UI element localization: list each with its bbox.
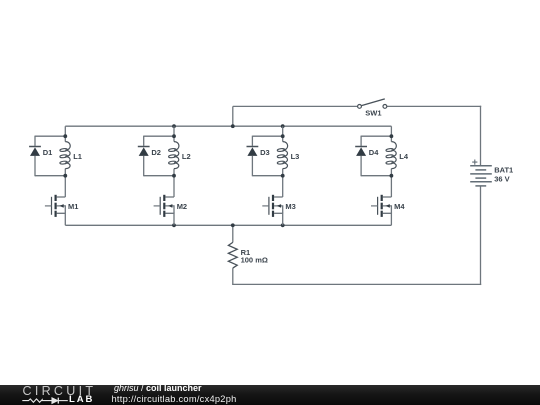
wire bottom return [232,283,481,285]
svg-text:M2: M2 [177,202,187,211]
inductor L2 [168,136,179,176]
junction top bus at L3 [281,124,285,128]
svg-text:BAT1: BAT1 [494,166,513,175]
junction cell4 top node [390,134,394,138]
junction cell3 top node [281,134,285,138]
inductor L4 [386,136,397,176]
resistor R1 [228,242,237,268]
wire R1 top lead [232,225,234,242]
wire cell2 top (bus stub + top rung) [144,126,174,136]
wire cell2 bottom rung [144,175,174,177]
junction bottom bus at R1 [231,223,235,227]
inductor L3 [277,136,288,176]
junction cell2 top node [172,134,176,138]
svg-text:D2: D2 [151,148,161,157]
switch SW1 [358,99,387,108]
battery BAT1 [470,160,492,186]
CircuitLab logo text LAB [69,394,94,405]
footer title line [114,383,202,393]
svg-text:L4: L4 [399,152,409,161]
svg-text:D3: D3 [260,148,270,157]
junction cell1 bottom node [63,174,67,178]
wire cell3 bottom rung [252,175,282,177]
wire riser bus to switch [232,106,234,126]
wire cell1 top (bus stub + top rung) [35,126,65,136]
wire right rail upper (to battery +) [480,106,482,165]
svg-text:36 V: 36 V [494,174,509,183]
wire cell3 top (bus stub + top rung) [252,126,282,136]
svg-text:M4: M4 [394,202,405,211]
junction cell3 bottom node [281,174,285,178]
svg-text:L3: L3 [291,152,300,161]
wire top bus [65,125,391,127]
CircuitLab logo resistor-diode glyph [21,395,71,405]
junction cell2 bottom node [172,174,176,178]
diode D4 [355,136,367,177]
inductor L1 [60,136,71,176]
junction bottom bus at M2 [172,223,176,227]
wire cell1 bottom rung [35,175,65,177]
svg-text:L1: L1 [73,152,82,161]
transistor M1 (NMOS) [45,195,65,226]
junction bottom bus at M3 [281,223,285,227]
wire cell4 bottom rung [361,175,391,177]
wire cell3 inductor to mosfet drain [282,176,284,197]
transistor M4 (NMOS) [371,195,391,226]
wire R1 bottom lead [232,268,234,284]
wire cell2 inductor to mosfet drain [173,176,175,197]
wire right rail lower (battery - down) [480,186,482,285]
transistor M3 (NMOS) [262,195,282,226]
svg-text:M1: M1 [68,202,78,211]
transistor M2 (NMOS) [154,195,174,226]
svg-text:L2: L2 [182,152,191,161]
wire switch to right rail [387,105,481,107]
wire cell1 inductor to mosfet drain [64,176,66,197]
wire top horizontal (switch net) [233,105,358,107]
diode D1 [29,136,41,177]
footer url line [112,394,237,404]
wire cell4 inductor to mosfet drain [390,176,392,197]
svg-text:D1: D1 [43,148,53,157]
wire bottom bus [65,224,391,226]
svg-text:D4: D4 [369,148,379,157]
junction top bus at switch riser [231,124,235,128]
junction cell1 top node [63,134,67,138]
wire cell4 top (bus stub + top rung) [361,126,391,136]
junction top bus at L2 [172,124,176,128]
svg-text:M3: M3 [285,202,295,211]
svg-text:SW1: SW1 [365,109,381,118]
junction cell4 bottom node [390,174,394,178]
diode D2 [138,136,150,177]
diode D3 [247,136,259,177]
svg-text:100 mΩ: 100 mΩ [241,256,268,265]
CircuitLab logo text CIRCUIT [23,384,97,398]
